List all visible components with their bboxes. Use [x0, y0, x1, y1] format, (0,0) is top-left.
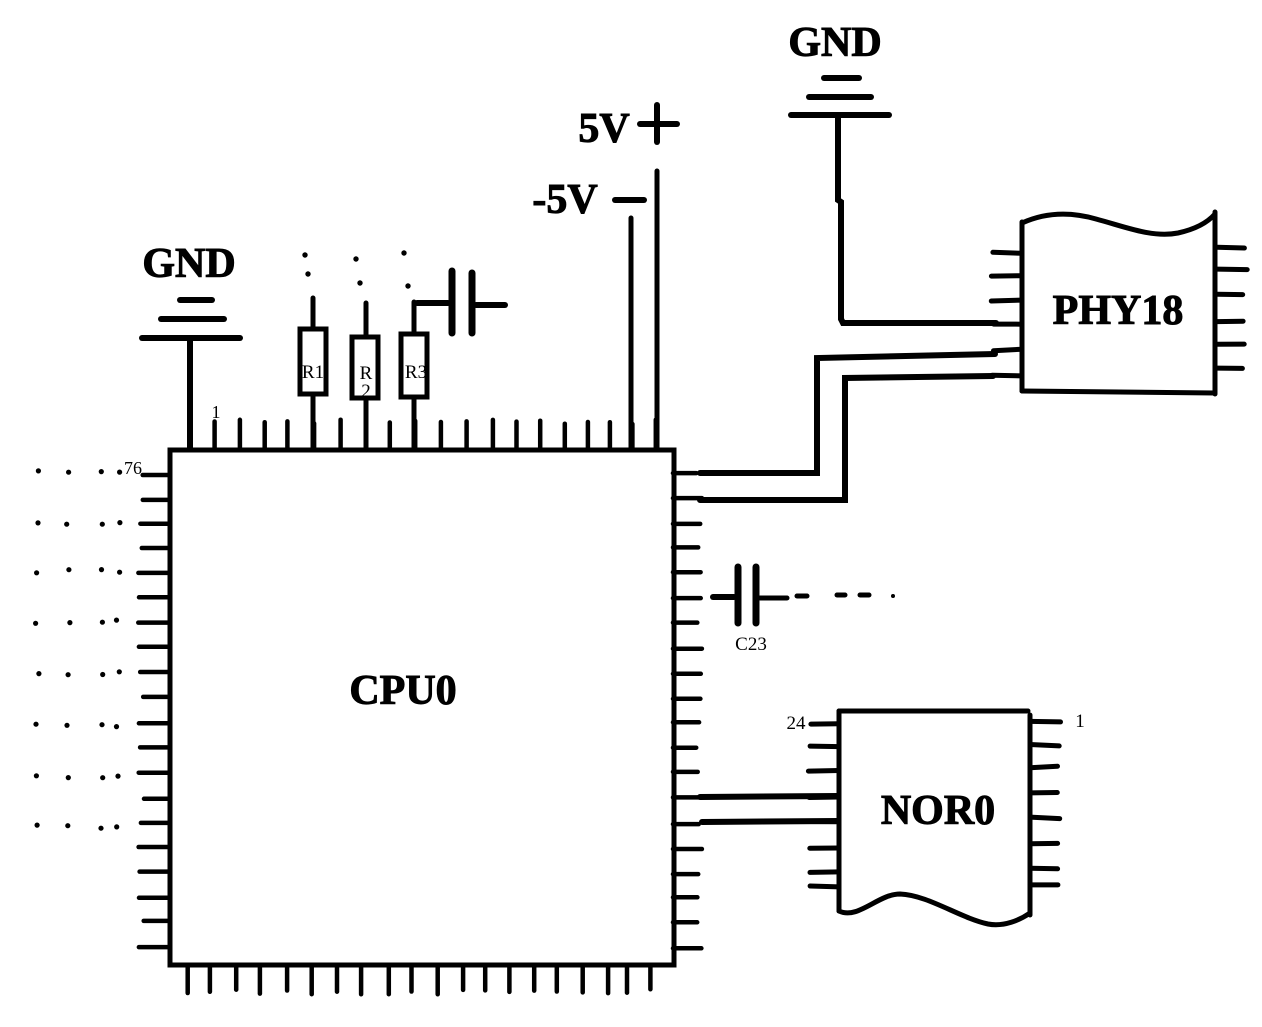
wire: top GND down	[838, 117, 841, 319]
wire: left GND to CPU pin 1	[187, 341, 193, 448]
svg-text:GND: GND	[788, 20, 881, 66]
capacitor C? (top, unlabeled)	[452, 271, 472, 333]
IC CPU0	[170, 450, 674, 965]
ground GND (top-middle)	[788, 20, 889, 115]
svg-text:C23: C23	[735, 634, 767, 655]
wire: 5V to CPU top pin	[655, 171, 660, 448]
PHY18 right pins	[1217, 247, 1247, 368]
svg-text:5V: 5V	[578, 106, 629, 152]
wire: R1 bottom lead to CPU	[311, 394, 316, 448]
wire: dotted continuation above R1	[302, 252, 310, 276]
capacitor C23	[735, 567, 767, 655]
wire: C23 right lead with dotted continuation	[760, 594, 895, 598]
wire: CPU to NOR0 net D	[702, 821, 838, 822]
CPU0 top pins	[190, 419, 655, 449]
wire: dotted continuation above R3	[401, 250, 410, 288]
svg-text:PHY18: PHY18	[1053, 288, 1184, 334]
svg-text:24: 24	[787, 713, 807, 734]
CPU0 left pins	[138, 475, 170, 947]
CPU0 bottom pins	[188, 966, 651, 994]
power net 5V	[578, 105, 677, 152]
wire: CPU to PHY18 net B	[700, 376, 993, 500]
wire: CPU to PHY18 net A	[700, 354, 995, 473]
wire: CPU to NOR0 net C	[700, 796, 838, 797]
wire: -5V to CPU top pin	[629, 218, 634, 448]
CPU0 right pins	[673, 473, 702, 948]
NOR0 left pins	[808, 724, 839, 887]
wire: R3 top lead	[412, 302, 417, 334]
resistor R2	[352, 337, 378, 402]
wire: C23 left lead from CPU pin	[713, 594, 734, 600]
resistor R1	[300, 329, 326, 394]
wire: dotted continuation above R2	[353, 256, 362, 285]
PHY18 left pins	[991, 252, 1022, 376]
wire: dotted bus continuation (left of CPU)	[33, 468, 123, 831]
svg-text:1: 1	[1075, 711, 1085, 732]
wire: R2 bottom lead to CPU	[364, 398, 369, 448]
NOR0 right pins	[1030, 721, 1061, 885]
ground GND (top-left)	[142, 241, 240, 338]
svg-text:CPU0: CPU0	[349, 668, 456, 714]
svg-text:-5V: -5V	[532, 177, 597, 223]
wire: R3 bottom lead to CPU	[412, 397, 417, 448]
resistor R3	[401, 334, 427, 397]
IC PHY18	[1022, 212, 1215, 394]
svg-text:R3: R3	[405, 362, 427, 383]
wire: capacitor right lead	[476, 302, 505, 308]
IC NOR0	[839, 711, 1030, 925]
power net -5V	[532, 177, 644, 223]
svg-text:R1: R1	[302, 362, 324, 383]
wire: capacitor left lead from R3 node	[417, 300, 448, 306]
wire: R2 top lead	[364, 303, 369, 337]
svg-text:NOR0: NOR0	[881, 788, 995, 834]
svg-text:1: 1	[212, 402, 221, 422]
wire: R1 top lead	[311, 298, 316, 329]
svg-text:GND: GND	[142, 241, 235, 287]
wire: top GND to PHY18 pin	[841, 319, 996, 323]
svg-text:76: 76	[124, 458, 142, 478]
